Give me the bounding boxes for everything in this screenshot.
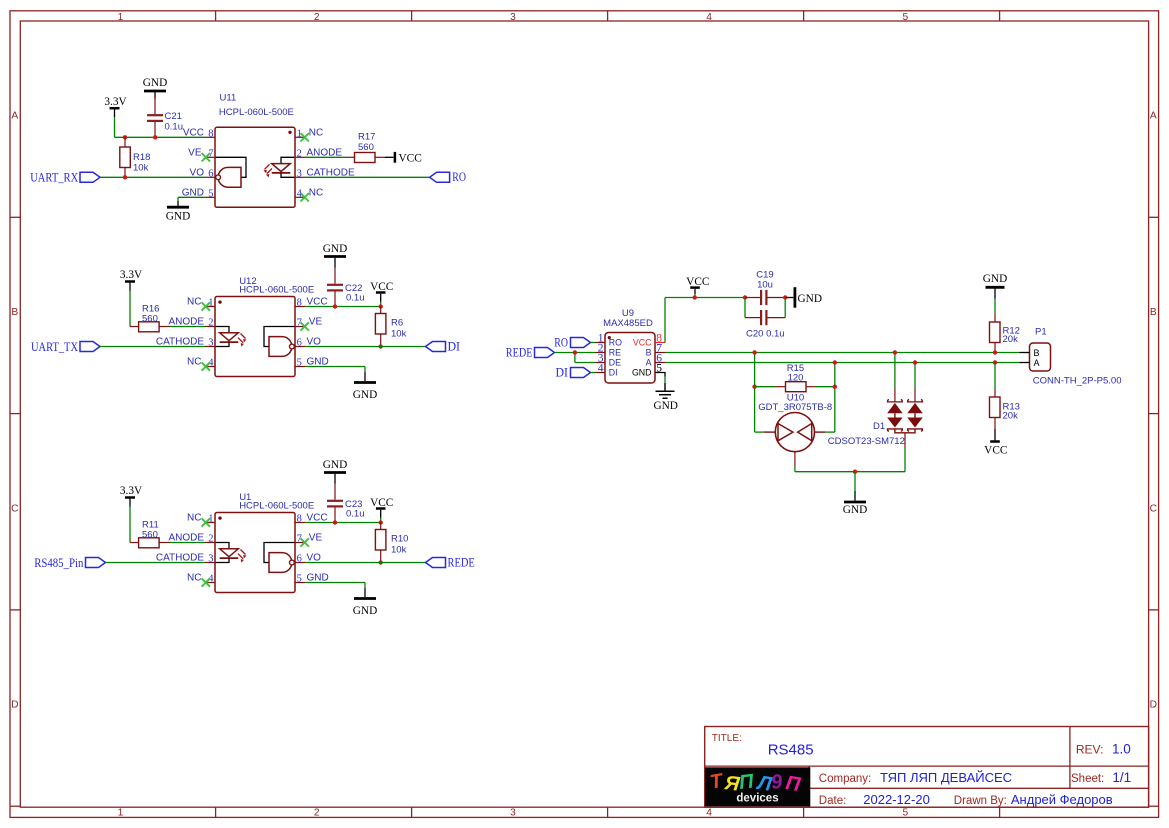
port DI (to U9)	[556, 365, 591, 379]
svg-text:A: A	[646, 358, 652, 368]
node junction R12/B	[993, 350, 997, 354]
svg-text:10k: 10k	[133, 162, 149, 173]
svg-text:DI: DI	[556, 365, 569, 379]
capacitor C20	[745, 298, 785, 340]
node junction R15 right	[833, 385, 837, 389]
svg-text:HCPL-060L-500E: HCPL-060L-500E	[239, 501, 314, 512]
svg-text:1: 1	[118, 12, 124, 23]
svg-text:4: 4	[706, 12, 712, 23]
svg-text:1.0: 1.0	[1112, 742, 1131, 757]
svg-text:R10: R10	[391, 534, 408, 545]
svg-text:devices: devices	[736, 793, 778, 805]
svg-text:A: A	[1034, 358, 1040, 368]
svg-text:2022-12-20: 2022-12-20	[863, 792, 930, 807]
wire A down to D1 right	[914, 363, 916, 389]
svg-text:C: C	[1150, 503, 1157, 514]
gas discharge tube U10	[758, 392, 832, 466]
svg-text:Company:: Company:	[819, 773, 871, 785]
svg-text:NC: NC	[187, 573, 201, 584]
wire R16 to U12 anode	[170, 326, 205, 328]
svg-text:2: 2	[208, 318, 213, 329]
wire B down to D1 left	[894, 353, 896, 389]
opto-coupler U12	[156, 276, 329, 377]
svg-text:NC: NC	[187, 513, 201, 524]
svg-text:0.1u: 0.1u	[346, 508, 365, 519]
wire A to R13	[994, 363, 996, 390]
wire DI port to U9 pin4	[591, 372, 596, 374]
resistor R10	[375, 523, 408, 563]
svg-text:HCPL-060L-500E: HCPL-060L-500E	[219, 107, 294, 118]
svg-text:GND: GND	[653, 400, 677, 412]
wire UART_TX to U12 cathode	[100, 346, 205, 348]
wire U11 cathode to RO	[305, 176, 430, 178]
node junction R13/A	[993, 360, 997, 364]
node junction R18 bottom	[123, 175, 127, 179]
svg-text:DI: DI	[609, 368, 618, 378]
power VCC (right of R17)	[385, 152, 422, 164]
node junction C21	[153, 135, 157, 139]
svg-text:6: 6	[208, 169, 213, 180]
svg-text:1/1: 1/1	[1112, 770, 1131, 785]
svg-text:560: 560	[142, 313, 158, 324]
svg-text:GND: GND	[353, 389, 377, 401]
svg-text:ANODE: ANODE	[168, 533, 204, 544]
ground GND (above C22)	[323, 243, 347, 267]
wire GDT right lead	[825, 431, 835, 433]
svg-text:REDE: REDE	[448, 555, 476, 569]
wire GND to R12	[994, 299, 996, 315]
wire 3.3V down to R16	[129, 291, 131, 327]
node junction C19 left	[743, 295, 747, 299]
svg-text:UART_RX: UART_RX	[30, 171, 78, 185]
svg-text:6: 6	[297, 338, 302, 349]
resistor R15	[755, 363, 835, 392]
node junction A column	[833, 360, 837, 364]
ground GND (U12 pin 5)	[305, 367, 377, 401]
wire U1 VO to REDE	[305, 562, 426, 564]
capacitor C19	[745, 270, 785, 306]
svg-text:TITLE:: TITLE:	[712, 733, 742, 744]
ground GND (above R12)	[983, 273, 1007, 299]
node junction R6 top	[379, 304, 383, 308]
wire GDT left lead	[755, 431, 764, 433]
svg-text:VCC: VCC	[686, 276, 709, 288]
ground GND (U1 pin 5)	[305, 583, 377, 617]
svg-text:3.3V: 3.3V	[120, 269, 143, 281]
svg-text:8: 8	[208, 129, 213, 140]
port RO (to U9)	[554, 335, 590, 349]
wire U12 VCC to R6/VCC node	[305, 306, 381, 308]
svg-text:560: 560	[358, 142, 374, 153]
ground GND (above C21)	[143, 77, 167, 99]
svg-text:P1: P1	[1035, 327, 1047, 338]
resistor R16	[130, 304, 170, 332]
svg-text:3.3V: 3.3V	[104, 96, 127, 108]
wire U1 VCC to R10/VCC node	[305, 522, 381, 524]
wire REDE to U9 RE/DE	[555, 353, 596, 363]
svg-text:1: 1	[118, 808, 124, 819]
svg-text:5: 5	[297, 358, 302, 369]
svg-text:DI: DI	[448, 339, 461, 353]
svg-text:10k: 10k	[391, 328, 407, 339]
opto-coupler U11	[182, 92, 355, 207]
wire U12 VO to DI	[305, 346, 426, 348]
wire GDT bottom to GND bus	[795, 466, 905, 472]
svg-text:10k: 10k	[391, 544, 407, 555]
port RO	[430, 170, 466, 184]
svg-text:DE: DE	[609, 358, 621, 368]
svg-text:3: 3	[297, 169, 302, 180]
svg-text:RO: RO	[554, 335, 568, 349]
wire A down to R15/GDT right	[834, 363, 836, 433]
svg-text:D1: D1	[873, 421, 885, 432]
svg-text:D: D	[1150, 700, 1157, 711]
svg-text:4: 4	[706, 808, 712, 819]
transceiver U9 MAX485ED	[595, 308, 665, 383]
svg-text:GDT_3R075TB-8: GDT_3R075TB-8	[758, 402, 832, 413]
svg-text:2: 2	[314, 808, 320, 819]
svg-text:GND: GND	[353, 605, 377, 617]
power VCC (above R10)	[370, 497, 393, 523]
svg-text:3: 3	[208, 338, 213, 349]
resistor R17	[345, 132, 386, 163]
svg-text:GND: GND	[323, 243, 347, 255]
svg-text:VE: VE	[309, 533, 323, 544]
node junction C23	[333, 520, 337, 524]
svg-text:ANODE: ANODE	[168, 317, 204, 328]
ground GND (below GDT)	[843, 472, 867, 517]
wire 3.3V down to VCC node	[115, 117, 206, 137]
wire RO port to U9 pin1	[591, 342, 596, 344]
svg-text:B: B	[11, 307, 18, 318]
svg-text:NC: NC	[187, 297, 201, 308]
node junction R18/VCC	[123, 135, 127, 139]
svg-text:B: B	[646, 348, 652, 358]
capacitor C21	[147, 99, 183, 138]
connector P1	[1020, 327, 1122, 387]
svg-text:5: 5	[902, 12, 908, 23]
resistor R13	[990, 389, 1020, 429]
power VCC (below R13)	[984, 429, 1007, 456]
svg-text:10u: 10u	[757, 279, 773, 290]
svg-text:R6: R6	[391, 318, 403, 329]
ground GND (U9 pin 5)	[653, 373, 677, 413]
title block	[705, 727, 1149, 808]
svg-text:GND: GND	[798, 293, 822, 305]
svg-text:NC: NC	[309, 188, 323, 199]
svg-text:8: 8	[297, 514, 302, 525]
node junction B column	[752, 350, 756, 354]
svg-text:D: D	[11, 700, 18, 711]
ground GND (above C23)	[323, 459, 347, 483]
svg-text:C20 0.1u: C20 0.1u	[746, 328, 785, 339]
node junction VCC stub	[693, 295, 697, 299]
svg-text:C: C	[11, 503, 18, 514]
svg-text:CATHODE: CATHODE	[156, 553, 204, 564]
port REDE label	[506, 345, 533, 359]
svg-text:CONN-TH_2P-P5.00: CONN-TH_2P-P5.00	[1033, 376, 1122, 387]
svg-text:0.1u: 0.1u	[346, 292, 365, 303]
svg-text:3.3V: 3.3V	[120, 485, 143, 497]
svg-text:C21: C21	[165, 111, 182, 122]
svg-text:RS485_Pin: RS485_Pin	[34, 556, 84, 570]
wire net B (U9 pin7 to P1)	[665, 352, 1020, 354]
wire R11 to U1 anode	[170, 542, 205, 544]
ground GND (right of C19)	[785, 287, 822, 308]
svg-text:HCPL-060L-500E: HCPL-060L-500E	[239, 285, 314, 296]
svg-text:2: 2	[208, 534, 213, 545]
svg-text:20k: 20k	[1003, 410, 1019, 421]
svg-text:5: 5	[297, 574, 302, 585]
svg-text:VE: VE	[188, 148, 202, 159]
power VCC (above U9)	[686, 276, 709, 298]
svg-text:RS485: RS485	[768, 741, 814, 758]
svg-text:B: B	[1034, 348, 1040, 358]
svg-text:A: A	[1150, 111, 1157, 122]
svg-text:GND: GND	[843, 504, 867, 516]
svg-text:R17: R17	[358, 132, 375, 143]
svg-text:RE: RE	[609, 348, 621, 358]
svg-text:GND: GND	[143, 77, 167, 89]
svg-text:VCC: VCC	[984, 444, 1007, 456]
resistor R11	[130, 520, 170, 548]
svg-text:5: 5	[902, 808, 908, 819]
svg-text:CDSOT23-SM712: CDSOT23-SM712	[828, 436, 905, 447]
resistor R6	[375, 307, 406, 347]
svg-text:GND: GND	[166, 210, 190, 222]
svg-text:120: 120	[788, 372, 804, 383]
svg-text:MAX485ED: MAX485ED	[603, 318, 653, 329]
power 3.3V (block C)	[120, 485, 143, 506]
svg-text:REDE: REDE	[506, 345, 533, 359]
svg-text:VCC: VCC	[183, 128, 204, 139]
svg-text:CATHODE: CATHODE	[156, 337, 204, 348]
node junction GND bus	[853, 470, 857, 474]
svg-text:5: 5	[208, 189, 213, 200]
wire B down to R15/GDT left	[754, 353, 756, 433]
svg-text:REV:: REV:	[1076, 743, 1104, 757]
port REDE (to U9)	[535, 348, 555, 358]
wire net A (U9 pin6 to P1)	[665, 362, 1020, 364]
svg-text:RO: RO	[609, 338, 622, 348]
node junction RE/DE	[573, 350, 577, 354]
svg-text:П: П	[738, 770, 755, 793]
capacitor C23	[327, 484, 365, 523]
opto-coupler U1	[156, 492, 329, 593]
port DI	[426, 339, 461, 353]
svg-text:3: 3	[510, 12, 516, 23]
svg-text:3: 3	[510, 808, 516, 819]
svg-text:UART_TX: UART_TX	[31, 340, 78, 354]
svg-text:8: 8	[297, 298, 302, 309]
port UART_TX	[31, 340, 100, 354]
node junction R15 left	[752, 385, 756, 389]
svg-text:NC: NC	[187, 357, 201, 368]
svg-text:GND: GND	[983, 273, 1007, 285]
node junction C22	[333, 304, 337, 308]
svg-text:VCC: VCC	[370, 497, 393, 509]
wire UART_RX to U11 VO	[100, 176, 205, 178]
wire D1 to GND bus	[904, 448, 906, 472]
port REDE (output)	[426, 555, 476, 569]
node junction R10 bottom	[379, 560, 383, 564]
svg-text:VCC: VCC	[370, 281, 393, 293]
svg-text:6: 6	[297, 554, 302, 565]
svg-text:Drawn By:: Drawn By:	[954, 795, 1007, 807]
svg-text:B: B	[1150, 307, 1157, 318]
capacitor C22	[327, 268, 365, 307]
node junction D1 left	[893, 350, 897, 354]
svg-text:NC: NC	[309, 128, 323, 139]
TVS diode array D1 CDSOT23-SM712	[828, 388, 923, 448]
node junction R6 bottom	[379, 344, 383, 348]
node junction C19 right	[783, 295, 787, 299]
wire 3.3V down to R11	[129, 507, 131, 543]
wire RS485_Pin to U1 cathode	[106, 562, 206, 564]
svg-text:Date:: Date:	[819, 795, 847, 807]
svg-text:GND: GND	[323, 459, 347, 471]
wire U11 anode to R17	[305, 156, 345, 158]
svg-text:0.1u: 0.1u	[165, 122, 184, 133]
wire VCC to U9 pin8 and C19	[665, 298, 745, 343]
svg-text:VCC: VCC	[399, 152, 422, 164]
svg-text:3: 3	[208, 554, 213, 565]
ground GND (U11 pin 5)	[166, 197, 205, 222]
power VCC (above R6)	[370, 281, 393, 307]
port UART_RX	[30, 171, 100, 185]
svg-text:GND: GND	[632, 368, 652, 378]
svg-text:ТЯП ЛЯП ДЕВАЙСЕС: ТЯП ЛЯП ДЕВАЙСЕС	[880, 770, 1012, 785]
svg-text:VE: VE	[309, 317, 323, 328]
node junction R10 top	[379, 520, 383, 524]
svg-text:560: 560	[142, 529, 158, 540]
svg-text:Sheet:: Sheet:	[1071, 773, 1104, 785]
resistor R12	[990, 314, 1020, 353]
svg-text:2: 2	[314, 12, 320, 23]
logo	[705, 767, 810, 806]
svg-text:20k: 20k	[1003, 334, 1019, 345]
power 3.3V (block B)	[120, 269, 143, 290]
power 3.3V (block A)	[104, 96, 127, 117]
svg-text:VCC: VCC	[633, 338, 652, 348]
svg-text:A: A	[11, 111, 18, 122]
svg-text:RO: RO	[452, 170, 466, 184]
svg-text:4: 4	[598, 363, 604, 375]
resistor R18	[120, 137, 151, 177]
svg-text:2: 2	[297, 149, 302, 160]
port RS485_Pin	[34, 556, 105, 570]
svg-text:U11: U11	[220, 92, 237, 103]
svg-text:Андрей Федоров: Андрей Федоров	[1011, 792, 1113, 807]
node junction D1 right	[913, 360, 917, 364]
